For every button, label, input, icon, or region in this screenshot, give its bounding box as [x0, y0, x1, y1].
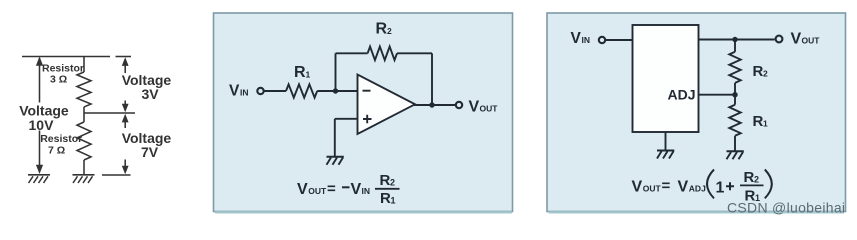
svg-text:V: V [571, 30, 582, 47]
svg-text:R: R [380, 172, 391, 189]
label VOUT [469, 99, 499, 116]
wire feedback top right [397, 52, 432, 54]
svg-text:2: 2 [387, 26, 392, 36]
wire between resistors [83, 107, 85, 122]
svg-text:R: R [380, 190, 391, 207]
node output junction [429, 102, 434, 107]
wire feedback top left [336, 52, 368, 54]
label R1 [294, 64, 311, 81]
node output junction [732, 37, 737, 42]
wire output [414, 104, 456, 106]
dimension line 7V [124, 117, 126, 172]
svg-text:OUT: OUT [308, 186, 327, 196]
ground left [28, 175, 50, 183]
svg-text:IN: IN [582, 35, 591, 45]
wire feedback down [431, 53, 433, 105]
svg-text:2: 2 [390, 177, 395, 187]
terminal VOUT [456, 102, 462, 108]
svg-text:V: V [469, 99, 480, 116]
svg-text:3V: 3V [142, 86, 160, 102]
svg-text:R: R [376, 21, 388, 38]
resistor R2 [729, 52, 740, 83]
dimension bar top (3V) [116, 56, 132, 58]
svg-text:3 Ω: 3 Ω [50, 74, 67, 86]
label VIN [571, 30, 591, 47]
svg-text:OUT: OUT [802, 36, 821, 46]
svg-text:=: = [327, 181, 336, 198]
svg-text:ADJ: ADJ [689, 184, 706, 194]
arrowhead 7V up [122, 114, 129, 123]
svg-text:Resistor: Resistor [40, 133, 82, 145]
formula VOUT = VADJ (1 + R2/R1) [632, 169, 772, 205]
svg-text:V: V [229, 83, 240, 100]
svg-text:ADJ: ADJ [668, 87, 696, 103]
svg-text:2: 2 [763, 68, 768, 78]
svg-text:IN: IN [362, 186, 371, 196]
wire VIN to regulator [606, 39, 633, 41]
svg-text:1: 1 [716, 180, 725, 197]
arrowhead 10V up [36, 57, 43, 66]
svg-text:7V: 7V [141, 144, 159, 160]
arrowhead 7V down [122, 166, 129, 175]
svg-text:1: 1 [391, 195, 396, 205]
svg-text:2: 2 [754, 174, 759, 184]
svg-text:OUT: OUT [480, 104, 499, 114]
terminal VIN [257, 88, 263, 94]
resistor 3 ohm [77, 72, 91, 107]
dimension bar bottom (7V) [102, 174, 131, 176]
resistor 7 ohm [77, 122, 91, 160]
wire output [699, 39, 775, 41]
label Voltage 7V [122, 130, 172, 160]
ground R1 [727, 151, 744, 159]
arrowhead 3V down [122, 104, 129, 113]
svg-text:1: 1 [763, 118, 768, 128]
svg-text:R: R [753, 113, 764, 130]
label Resistor 7 ohm [40, 133, 82, 157]
wire feedback up [335, 53, 337, 91]
svg-text:IN: IN [240, 88, 249, 98]
wire left branch (10V measure line) [39, 58, 41, 172]
wire VIN to R1 [264, 90, 286, 92]
ground regulator [657, 151, 674, 159]
svg-text:1: 1 [306, 70, 311, 80]
svg-text:=: = [662, 178, 671, 195]
svg-text:V: V [632, 179, 643, 196]
label R2 [376, 21, 393, 38]
svg-text:R: R [744, 169, 755, 186]
arrowhead 3V up [122, 57, 129, 66]
svg-text:7 Ω: 7 Ω [48, 145, 65, 157]
wire junction to R2 [734, 40, 736, 52]
wire middle node [84, 112, 135, 114]
dimension line 3V [124, 59, 126, 111]
minus symbol [363, 90, 371, 92]
terminal VIN [599, 37, 605, 43]
label VIN [229, 83, 249, 100]
node ADJ junction [732, 92, 737, 97]
wire resistor column bottom stub [83, 160, 85, 175]
ground middle [73, 175, 95, 183]
wire non-inverting input [335, 118, 358, 120]
svg-text:10V: 10V [29, 117, 55, 133]
op-amp U1 [358, 75, 416, 135]
resistor R2 [368, 47, 397, 61]
svg-text:V: V [678, 179, 689, 196]
label R1 [753, 113, 769, 130]
label Voltage 10V [19, 103, 69, 134]
label VOUT [791, 31, 821, 48]
label Resistor 3 ohm [42, 63, 84, 86]
panel background [214, 13, 513, 212]
formula VOUT = -VIN R2/R1 [297, 172, 400, 207]
label R2 [753, 63, 769, 80]
svg-text:V: V [791, 31, 802, 48]
resistor R1 [286, 84, 317, 97]
svg-text:R: R [753, 63, 764, 80]
terminal VOUT [776, 36, 783, 43]
arrowhead 10V down [36, 165, 43, 174]
regulator U1 box [633, 25, 699, 132]
svg-text:CSDN @luobeihai: CSDN @luobeihai [727, 200, 845, 216]
wire R1 to ground [734, 136, 736, 152]
wire to ground [334, 119, 336, 157]
resistor R1 [729, 105, 740, 136]
panel background [547, 13, 846, 212]
svg-text:R: R [294, 64, 306, 81]
wire resistor column top stub [83, 57, 85, 73]
label Voltage 3V [122, 72, 172, 102]
wire R1 to op-amp [317, 90, 357, 92]
svg-text:V: V [351, 181, 362, 198]
wire R2 to ADJ node [734, 83, 736, 105]
wire ADJ pin [699, 94, 736, 96]
svg-text:V: V [297, 181, 308, 198]
node junction inverting input [333, 88, 338, 93]
ground op-amp [327, 157, 344, 165]
wire top rail [22, 56, 110, 58]
plus symbol [363, 115, 372, 123]
svg-text:OUT: OUT [643, 184, 662, 194]
wire regulator to ground [665, 132, 667, 151]
